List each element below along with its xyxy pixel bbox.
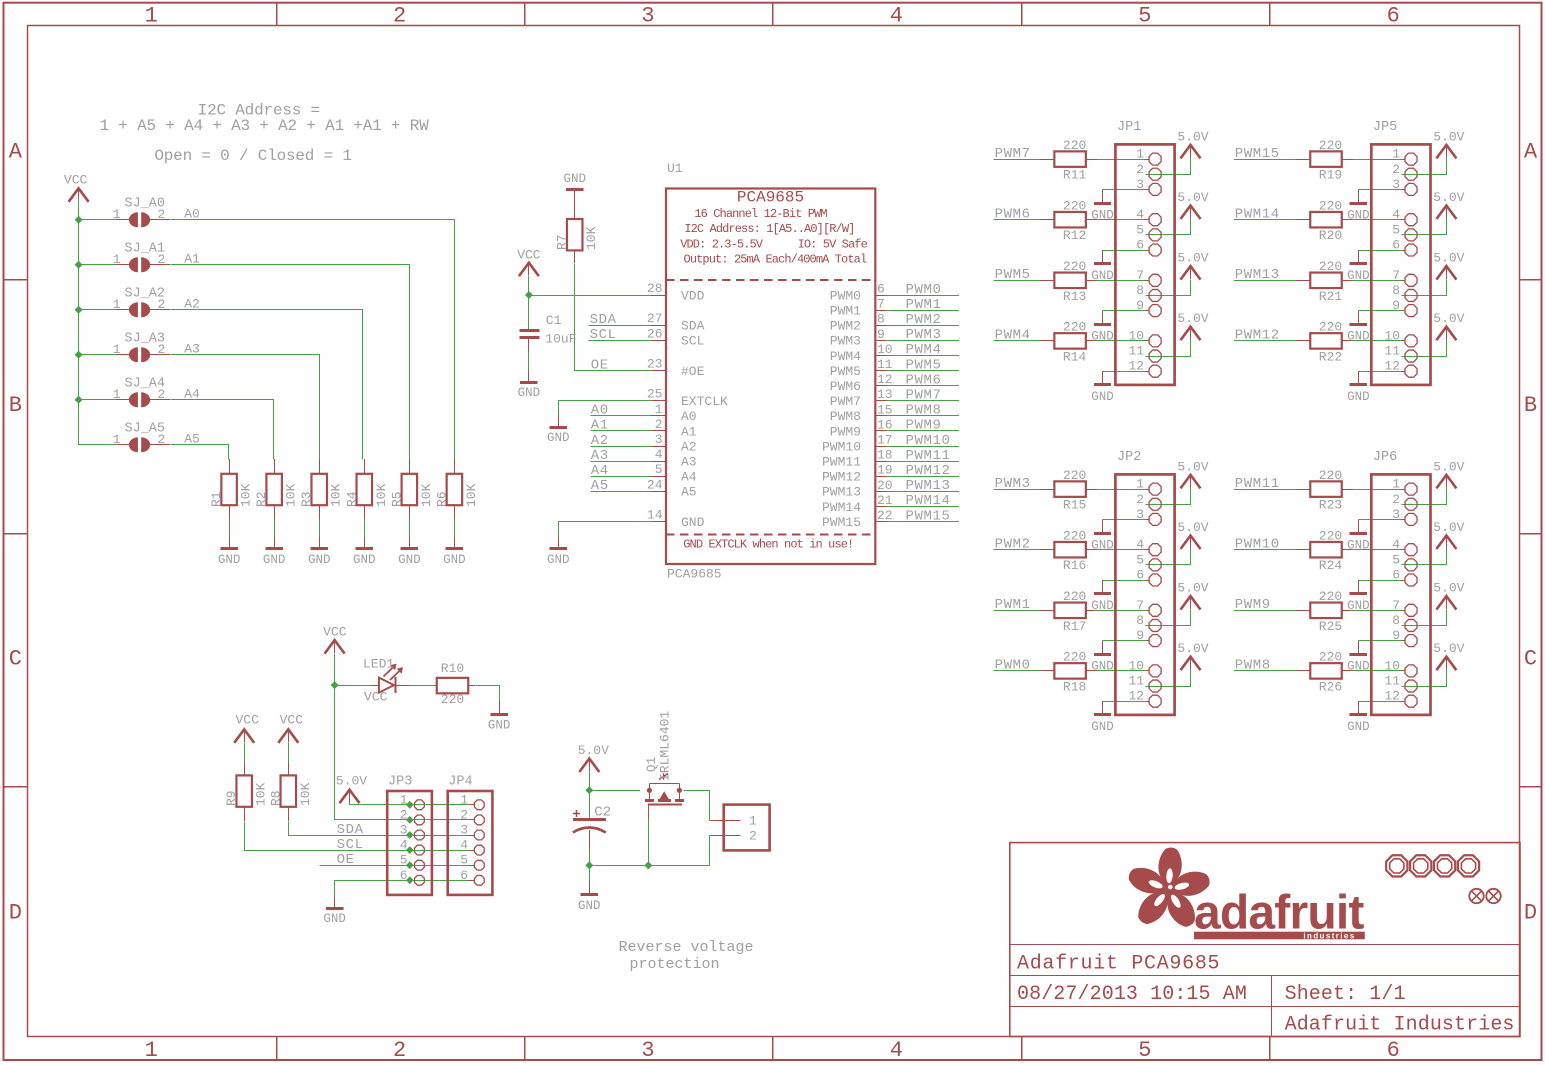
wire JP1 pin 12 to ground [1103,371,1146,373]
power VCC arrow (address jumpers) [69,188,89,202]
solder jumper SJ_A3 [116,347,170,362]
wire PWM4 stub [887,355,959,357]
svg-text:5.0V: 5.0V [1177,459,1208,474]
svg-text:220: 220 [1319,589,1342,604]
svg-text:VCC: VCC [323,624,347,639]
JP1 pad 4 [1149,214,1161,226]
svg-text:9: 9 [1392,298,1400,313]
svg-text:9: 9 [1392,628,1400,643]
svg-text:SDA: SDA [337,822,364,838]
svg-text:A1: A1 [681,424,697,439]
svg-text:12: 12 [1128,359,1144,374]
svg-text:8: 8 [1136,283,1144,298]
power 5.0V arrow (JP1 pin 11) [1181,327,1201,341]
wire PWM14 stub [887,506,959,508]
JP5 pad 12 [1405,365,1417,377]
JP1 pad 1 [1149,153,1161,165]
svg-text:5: 5 [1392,222,1400,237]
power 5.0V arrow (JP3 pin 1) [340,790,360,804]
transistor Q1 IRLML6401 [645,773,684,818]
wire R25 to JP6 pin 7 [1353,610,1402,612]
note reverse voltage protection [618,939,753,973]
wire 5.0V to JP2 pin 8 [1146,610,1191,626]
wire LED1 to R10 [409,685,437,687]
svg-text:PWM12: PWM12 [906,463,951,479]
svg-text:R3: R3 [299,491,314,507]
wire JP5 pin 9 to ground [1358,310,1401,312]
junction VCC bus row 2 [75,306,83,314]
svg-text:R17: R17 [1063,619,1086,634]
JP6 pad 7 [1405,604,1417,616]
JP5 pad 7 [1405,274,1417,286]
svg-text:25: 25 [647,387,663,402]
wire R11 to JP1 pin 1 [1097,159,1146,161]
resistor R11 [1040,151,1098,167]
svg-text:PWM12: PWM12 [822,470,861,485]
solder jumper SJ_A2 [116,302,170,317]
junction LED anode [331,681,339,689]
svg-text:PWM12: PWM12 [1235,328,1280,344]
svg-text:PWM6: PWM6 [830,379,861,394]
svg-text:GND: GND [353,553,376,567]
svg-text:GND: GND [1347,720,1370,734]
JP6 pad 11 [1405,680,1417,692]
svg-text:R15: R15 [1063,498,1086,513]
svg-text:C1: C1 [546,313,562,328]
wire R14 to JP1 pin 10 [1097,340,1146,342]
JP4 pad 3 [474,830,484,840]
JP1 pad 6 [1149,244,1161,256]
svg-text:2: 2 [158,207,166,222]
wire PWM8 stub [887,415,959,417]
U1 pin 22 stub (PWM15) [875,521,886,523]
svg-text:20: 20 [877,478,893,493]
svg-text:9: 9 [1136,298,1144,313]
ground at JP5 pin 9 [1358,311,1360,325]
svg-text:5: 5 [1138,1038,1151,1063]
svg-text:6: 6 [1392,238,1400,253]
power 5.0V arrow (JP1 pin 8) [1181,266,1201,280]
wire PWM14 to R20 [1234,219,1296,221]
wire A2 stub at U1 [591,446,652,448]
ground below R1 [229,537,231,549]
JP2 pad 8 [1149,619,1161,631]
svg-text:GND: GND [547,553,570,567]
svg-text:SDA: SDA [590,312,617,328]
Adafruit logo underline bar [1194,932,1365,940]
svg-text:GND EXTCLK when not in use!: GND EXTCLK when not in use! [683,538,853,552]
wire A1 stub at U1 [591,430,652,432]
power 5.0V arrow (JP2 pin 5) [1181,536,1201,550]
resistor R21 [1296,273,1354,289]
svg-text:14: 14 [647,508,663,523]
svg-text:4: 4 [655,447,663,462]
U1 pin 13 stub (PWM7) [875,400,886,402]
wire PWM4 to R14 [994,340,1040,342]
svg-text:PWM2: PWM2 [830,319,861,334]
junction Q1 gate ground [644,861,652,869]
ground at JP2 pin 3 [1102,519,1104,533]
svg-text:PWM1: PWM1 [830,304,861,319]
svg-text:5: 5 [655,462,663,477]
svg-text:A5: A5 [591,478,609,494]
svg-text:1: 1 [145,4,158,29]
svg-text:PWM15: PWM15 [906,508,951,524]
svg-text:SDA: SDA [681,319,705,334]
JP2 pad 5 [1149,559,1161,571]
svg-text:7: 7 [1392,598,1400,613]
solder jumper SJ_A5 [116,437,170,452]
JP5 pad 1 [1405,153,1417,165]
svg-text:5.0V: 5.0V [1433,251,1464,266]
svg-text:6: 6 [1387,4,1400,29]
X1 pin 1 [712,820,741,822]
svg-text:2: 2 [158,432,166,447]
svg-text:VDD: VDD [681,288,705,303]
junction at JP3 pin 2 [406,816,414,824]
svg-text:GND: GND [1091,539,1114,553]
svg-text:8: 8 [877,312,885,327]
svg-text:I2C Address: 1[A5..A0][R/W]: I2C Address: 1[A5..A0][R/W] [684,222,854,236]
wire PWM13 stub [887,491,959,493]
power VCC arrow (R9) [234,729,254,743]
U1 pin 26 stub [651,340,666,342]
svg-text:5.0V: 5.0V [1433,459,1464,474]
solder jumper SJ_A1 [116,257,170,272]
wire Q1 drain to connector pin 1 [684,791,712,821]
svg-text:PWM10: PWM10 [822,439,861,454]
resistor R25 [1296,603,1354,619]
JP6 pad 10 [1405,665,1417,677]
power 5.0V arrow (JP1 pin 5) [1181,206,1201,220]
svg-text:VDD: 2.3-5.5V: VDD: 2.3-5.5V [680,237,764,251]
svg-text:A3: A3 [591,448,609,464]
JP4 pin 2 stub [469,819,475,821]
wire PWM13 to R21 [1234,280,1296,282]
svg-text:PWM7: PWM7 [906,388,942,404]
svg-text:5.0V: 5.0V [1177,190,1208,205]
junction at JP3 pin 4 [406,846,414,854]
title block frame [1010,843,1520,1037]
svg-text:3: 3 [1136,507,1144,522]
U1 pin 9 stub (PWM3) [875,340,886,342]
wire PWM15 to R19 [1234,159,1296,161]
svg-text:GND: GND [488,719,511,733]
U1 pin 19 stub (PWM12) [875,476,886,478]
wire 5.0V to JP5 pin 8 [1402,280,1447,296]
wire PWM3 to R15 [994,489,1040,491]
svg-text:6: 6 [1392,568,1400,583]
wire 5.0V to JP5 pin 5 [1402,219,1447,235]
junction at JP3 pin 5 [406,861,414,869]
svg-text:10uF: 10uF [545,332,576,347]
svg-text:27: 27 [647,311,663,326]
wire R18 to JP2 pin 10 [1097,670,1146,672]
JP5 pad 10 [1405,335,1417,347]
svg-text:5.0V: 5.0V [1177,520,1208,535]
power 5.0V arrow (input) [579,759,599,773]
svg-text:PWM0: PWM0 [830,288,861,303]
ground at JP6 pin 6 [1358,580,1360,594]
svg-text:5: 5 [1138,4,1151,29]
JP1 pad 9 [1149,305,1161,317]
JP4 pad 4 [474,845,484,855]
svg-text:Output: 25mA Each/400mA Total: Output: 25mA Each/400mA Total [684,253,867,267]
svg-text:6: 6 [1136,568,1144,583]
svg-text:5.0V: 5.0V [1433,520,1464,535]
svg-text:5: 5 [1136,552,1144,567]
svg-text:10K: 10K [584,226,599,250]
svg-text:JP3: JP3 [388,775,412,790]
wire R3 to ground [319,519,321,537]
svg-text:A4: A4 [591,463,609,479]
resistor R23 [1296,481,1354,497]
svg-text:1: 1 [460,792,468,807]
wire ground rail [590,836,712,866]
power VCC arrow (R8) [278,729,298,743]
svg-text:5.0V: 5.0V [1433,190,1464,205]
svg-text:220: 220 [1063,528,1086,543]
logo octagon rings [1386,855,1479,876]
svg-text:4: 4 [460,838,468,853]
svg-text:JP1: JP1 [1117,120,1141,135]
svg-text:220: 220 [1063,198,1086,213]
frame column numbers top [145,4,1400,29]
resistor R3 [311,459,327,519]
power 5.0V arrow (JP1 pin 2) [1181,145,1201,159]
svg-text:10: 10 [1128,658,1144,673]
svg-text:7: 7 [1392,268,1400,283]
wire SDA stub [588,325,651,327]
U1 pin 28 stub [651,295,666,297]
svg-text:R11: R11 [1063,168,1087,183]
JP2 pad 12 [1149,695,1161,707]
JP5 pad 6 [1405,244,1417,256]
power VCC arrow (VDD) [519,263,539,277]
wire JP5 pin 3 to ground [1358,189,1401,191]
svg-text:10: 10 [1384,658,1400,673]
wire JP3 pin 6 to ground [335,881,469,898]
JP2 pad 7 [1149,604,1161,616]
svg-text:OE: OE [591,357,609,373]
svg-text:22: 22 [877,508,893,523]
svg-text:10K: 10K [419,483,434,507]
ground at JP2 pin 12 [1102,701,1104,715]
svg-text:220: 220 [1319,528,1342,543]
svg-text:5: 5 [1136,222,1144,237]
ground on EXTCLK [558,414,560,427]
svg-text:R9: R9 [224,790,239,806]
resistor R14 [1040,333,1098,349]
svg-text:5.0V: 5.0V [1433,641,1464,656]
wire PWM0 to R18 [994,670,1040,672]
wire JP2 pin 12 to ground [1103,701,1146,703]
svg-text:24: 24 [647,477,663,492]
power 5.0V arrow (JP5 pin 5) [1436,206,1456,220]
ground on U1 pin 14 [558,538,560,549]
svg-text:GND: GND [218,553,241,567]
JP6 pad 5 [1405,559,1417,571]
wire VCC to R8 [288,743,290,763]
svg-text:11: 11 [877,357,893,372]
wire VCC bus to SJ_A4 pin 1 [79,399,116,401]
JP4 pin 1 stub [469,804,475,806]
wire 5.0V to JP1 pin 11 [1146,340,1191,357]
wire VCC bus to SJ_A3 pin 1 [79,354,116,356]
ground below R5 [409,537,411,549]
svg-text:PWM4: PWM4 [906,342,942,358]
wire PWM5 stub [887,370,959,372]
svg-text:8: 8 [1392,283,1400,298]
svg-text:26: 26 [647,326,663,341]
svg-text:4: 4 [1392,537,1400,552]
svg-text:5.0V: 5.0V [1433,581,1464,596]
LED LED1 [371,664,410,693]
wire R6 to ground [454,519,456,537]
JP1 pad 2 [1149,168,1161,180]
svg-text:5.0V: 5.0V [1177,641,1208,656]
ground below C2 [589,881,591,895]
svg-text:A2: A2 [681,439,697,454]
svg-text:PWM0: PWM0 [995,658,1031,674]
U1 pin 4 stub [651,461,666,463]
svg-text:R21: R21 [1319,289,1343,304]
note I2C address formula [99,102,429,165]
svg-text:JP4: JP4 [448,775,472,790]
JP2 pad 3 [1149,513,1161,525]
svg-text:Adafruit PCA9685: Adafruit PCA9685 [1017,953,1220,976]
wire 5.0V to JP1 pin 2 [1146,158,1191,175]
solder jumper SJ_A0 [116,212,170,227]
wire PWM10 to R24 [1234,549,1296,551]
svg-text:8: 8 [1392,613,1400,628]
svg-text:6: 6 [877,282,885,297]
junction VCC bus row 4 [75,396,83,404]
svg-text:R10: R10 [441,661,464,676]
svg-text:GND: GND [1347,539,1370,553]
JP3 pad 1 [415,800,425,810]
resistor R16 [1040,542,1098,558]
resistor R5 [402,459,418,519]
ground below R6 [454,537,456,549]
wire 5.0V to JP2 pin 5 [1146,549,1191,565]
ground below C1 [528,371,530,382]
wire node to Q1 source [589,790,640,792]
svg-text:R4: R4 [344,491,359,507]
JP6 pad 8 [1405,619,1417,631]
junction 5V input node [585,786,593,794]
JP3 pad 4 [415,845,425,855]
ground below JP3 [334,897,336,908]
svg-text:PWM1: PWM1 [906,297,942,313]
svg-text:U1: U1 [667,161,683,176]
wire R23 to JP6 pin 1 [1353,489,1402,491]
U1 pin 16 stub (PWM9) [875,430,886,432]
ground above R7 [566,188,583,191]
JP3 pad 6 [415,875,425,885]
svg-text:12: 12 [1384,689,1400,704]
IC U1 PCA9685 body [666,189,875,565]
svg-text:industries: industries [1303,931,1355,940]
wire 5.0V to JP1 pin 5 [1146,219,1191,235]
svg-text:6: 6 [1136,238,1144,253]
JP1 pad 12 [1149,365,1161,377]
svg-text:R13: R13 [1063,289,1086,304]
svg-text:6: 6 [460,868,468,883]
svg-text:PWM14: PWM14 [822,500,861,515]
svg-text:4: 4 [1136,207,1144,222]
solder jumper SJ_A4 [116,392,170,407]
wire VCC bus to SJ_A1 pin 1 [79,264,116,266]
svg-text:2: 2 [158,342,166,357]
svg-text:1 + A5 + A4 + A3 + A2 + A1 +A1: 1 + A5 + A4 + A3 + A2 + A1 +A1 + RW [99,117,429,135]
wire PWM6 to R12 [994,219,1040,221]
svg-text:GND: GND [1347,660,1370,674]
svg-text:2: 2 [158,387,166,402]
power 5.0V arrow (JP2 pin 8) [1181,596,1201,610]
svg-text:B: B [1524,393,1537,418]
wire VCC to R9 [244,743,246,763]
wire PWM11 stub [887,461,959,463]
svg-text:1: 1 [113,432,121,447]
wire PWM12 stub [887,476,959,478]
wire R10 to ground [476,686,500,702]
svg-text:21: 21 [877,493,893,508]
svg-text:VCC: VCC [364,689,388,704]
JP2 pad 11 [1149,680,1161,692]
svg-text:LED1: LED1 [363,657,394,672]
connector JP2 body [1115,474,1174,715]
X1 pin 2 [712,835,741,837]
wire R21 to JP5 pin 7 [1353,280,1402,282]
svg-text:220: 220 [1063,589,1086,604]
resistor R4 [357,459,373,519]
wire R16 to JP2 pin 4 [1097,549,1146,551]
svg-text:EXTCLK: EXTCLK [681,394,728,409]
svg-text:1: 1 [145,1038,158,1063]
svg-text:5.0V: 5.0V [1177,581,1208,596]
wire net A5 to resistor column [171,445,229,460]
svg-text:2: 2 [749,828,757,843]
svg-text:PWM10: PWM10 [906,433,951,449]
svg-text:JP2: JP2 [1117,450,1141,465]
connector JP3 body [387,791,432,895]
wire R5 to ground [409,519,411,537]
JP1 pad 3 [1149,183,1161,195]
svg-text:12: 12 [877,372,893,387]
svg-text:C: C [1524,647,1537,672]
svg-text:10K: 10K [284,483,299,507]
wire 5.0V to node [589,772,591,790]
svg-text:#OE: #OE [681,364,705,379]
JP4 pin 5 stub [469,865,475,867]
svg-text:2: 2 [460,807,468,822]
junction at JP3 pin 3 [406,831,414,839]
wire R20 to JP5 pin 4 [1353,219,1402,221]
svg-text:PWM7: PWM7 [830,394,861,409]
svg-text:PWM11: PWM11 [822,455,861,470]
power 5.0V arrow (JP2 pin 2) [1181,475,1201,489]
svg-text:220: 220 [441,692,464,707]
svg-text:5.0V: 5.0V [578,743,609,758]
svg-text:1: 1 [1392,147,1400,162]
Adafruit logo star [1129,847,1210,926]
svg-text:GND: GND [1347,209,1370,223]
svg-text:2: 2 [158,252,166,267]
resistor R24 [1296,542,1354,558]
U1 pin 12 stub (PWM6) [875,385,886,387]
JP4 pad 2 [474,815,484,825]
